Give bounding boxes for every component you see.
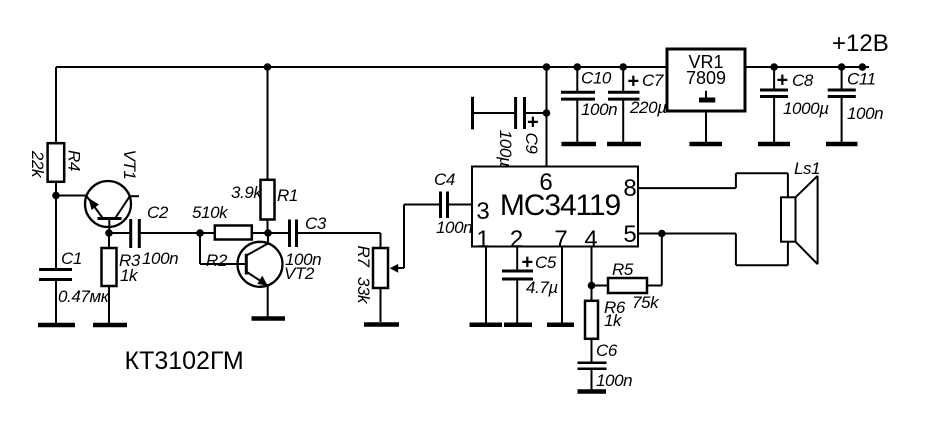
resistor R3 [102, 233, 117, 324]
svg-text:5: 5 [623, 221, 636, 248]
label C10 100n [581, 69, 617, 120]
ground pin1 [470, 323, 503, 328]
svg-text:100n: 100n [596, 371, 632, 390]
label C11 100n [847, 70, 883, 124]
regulator VR1 7809 [667, 49, 745, 142]
IC U1 MC34119 [472, 167, 638, 254]
resistor R6 [585, 301, 598, 363]
svg-text:1k: 1k [604, 311, 623, 330]
ground VT2 [252, 316, 286, 321]
wire rail to R1 [267, 67, 269, 180]
svg-text:7809: 7809 [686, 68, 726, 88]
ground C10 [562, 142, 597, 147]
potentiometer R7 [373, 205, 441, 323]
label C9 plus 100u [496, 112, 541, 167]
wire rail to pin6 [546, 67, 548, 167]
svg-text:33k: 33k [354, 277, 373, 305]
label C7 plus 220u [628, 71, 668, 118]
svg-text:+: + [522, 252, 534, 274]
svg-text:C6: C6 [596, 341, 618, 360]
wire pin7 to ground [561, 247, 563, 324]
wire node down to VT2 base [200, 233, 246, 264]
node rail/C10 [574, 63, 582, 71]
ground pin7 [547, 323, 574, 328]
svg-text:C3: C3 [305, 214, 327, 233]
transistor VT2 [238, 233, 283, 316]
wire node to VT1 emitter [56, 195, 87, 197]
speaker Ls1 [781, 176, 818, 264]
ground C5 [504, 323, 532, 328]
label R1 3.9k [231, 183, 298, 205]
wire C2 to node 510k [139, 232, 200, 234]
svg-text:1000µ: 1000µ [783, 99, 829, 118]
node R4/C1/VT1 [52, 192, 60, 200]
capacitor C5 [502, 247, 533, 324]
label R7 33k [354, 246, 373, 305]
svg-text:C10: C10 [581, 69, 612, 88]
svg-text:510k: 510k [192, 203, 229, 222]
svg-text:+: + [777, 70, 789, 92]
svg-text:MC34119: MC34119 [500, 189, 621, 222]
wire pin5 to speaker [638, 234, 788, 266]
resistor R2 510k [200, 226, 268, 240]
svg-text:100n: 100n [436, 218, 472, 237]
wire rail to R4 [55, 67, 57, 144]
svg-text:100n: 100n [581, 100, 617, 119]
svg-text:100n: 100n [847, 104, 883, 123]
svg-text:+: + [527, 112, 539, 134]
node R1/R2/VT2-collector/C3 [264, 229, 272, 237]
label C6 100n [596, 341, 632, 390]
capacitor C8 [760, 67, 788, 142]
wire pin8 to speaker [638, 173, 788, 197]
node rail/R1 [264, 63, 272, 71]
node C2/R2/VT2-base [196, 229, 204, 237]
node C9/pin6 wire [543, 109, 551, 117]
ground R7 [364, 322, 399, 327]
label C4 100n [434, 170, 472, 237]
svg-text:R5: R5 [612, 260, 634, 279]
label C5 4.7u [522, 252, 559, 298]
label C3 100n [285, 214, 327, 269]
wire +V rail right section [745, 66, 869, 68]
ground R3 [93, 323, 127, 328]
resistor R1 [261, 180, 275, 233]
svg-text:100n: 100n [285, 250, 321, 269]
capacitor C2 [131, 219, 140, 248]
svg-text:220µ: 220µ [629, 98, 667, 117]
svg-text:C7: C7 [642, 71, 664, 90]
svg-text:R7: R7 [354, 246, 373, 268]
wire pin1 to ground [485, 247, 487, 324]
capacitor C10 [561, 67, 595, 142]
ground VR1 [690, 142, 723, 147]
ground C11 [826, 142, 858, 147]
svg-text:22k: 22k [28, 150, 47, 179]
svg-text:Ls1: Ls1 [794, 159, 820, 178]
svg-text:C4: C4 [434, 170, 455, 189]
ground C1 [38, 323, 75, 328]
wire pin4 down [591, 247, 593, 301]
capacitor C9 [473, 97, 547, 130]
svg-text:+: + [628, 71, 640, 93]
node pin5/R5 [658, 230, 666, 238]
resistor R4 [48, 143, 65, 270]
label R2 510k [192, 203, 229, 270]
label R5 75k [612, 260, 660, 312]
wire node to C2 [109, 232, 131, 234]
node rail/C11 [838, 63, 846, 71]
label C2 100n [142, 203, 178, 268]
node rail/C8 [770, 63, 778, 71]
svg-text:C11: C11 [847, 70, 876, 89]
label C8 plus 1000u [777, 70, 830, 119]
svg-text:C2: C2 [147, 203, 169, 222]
ground C6 [578, 389, 607, 394]
resistor R5 [592, 234, 662, 294]
svg-text:3.9k: 3.9k [231, 183, 263, 202]
node rail/C7 [619, 63, 627, 71]
svg-text:4.7µ: 4.7µ [526, 278, 558, 297]
label R3 1k [119, 251, 141, 285]
ground C8 [758, 142, 790, 147]
svg-text:100µ: 100µ [496, 130, 515, 167]
svg-text:C8: C8 [792, 71, 814, 90]
svg-text:C1: C1 [61, 249, 82, 268]
ground C7 [607, 142, 641, 147]
svg-text:1k: 1k [120, 266, 139, 285]
label C1 0.47mk [58, 249, 110, 306]
capacitor C6 [578, 363, 607, 390]
svg-text:R2: R2 [206, 251, 228, 270]
svg-text:75k: 75k [632, 293, 660, 312]
transistor VT1 [85, 181, 139, 233]
svg-text:C9: C9 [522, 133, 541, 155]
svg-text:VT1: VT1 [120, 150, 139, 180]
svg-text:1: 1 [476, 226, 489, 253]
node VT1 base / R3 / C2 [105, 229, 113, 237]
capacitor C3 [268, 220, 381, 248]
svg-text:КТ3102ГМ: КТ3102ГМ [125, 347, 244, 375]
node pin4/R5/R6 [588, 282, 596, 290]
capacitor C1 [39, 270, 72, 324]
svg-text:100n: 100n [142, 249, 178, 268]
svg-text:0.47мк: 0.47мк [58, 287, 110, 306]
capacitor C4 [441, 192, 473, 219]
node +12V terminal [859, 63, 867, 71]
svg-text:8: 8 [623, 175, 636, 202]
svg-text:R4: R4 [65, 150, 84, 171]
svg-text:3: 3 [476, 198, 489, 225]
wire +V rail left section [56, 66, 667, 68]
capacitor C11 [828, 67, 856, 142]
svg-text:C5: C5 [535, 253, 557, 272]
svg-text:+12В: +12В [832, 30, 889, 57]
label R6 1k [604, 298, 626, 330]
label R4 22k [28, 150, 84, 179]
node rail/pin6 wire [543, 63, 551, 71]
svg-text:R1: R1 [277, 186, 298, 205]
capacitor C7 [608, 67, 640, 142]
